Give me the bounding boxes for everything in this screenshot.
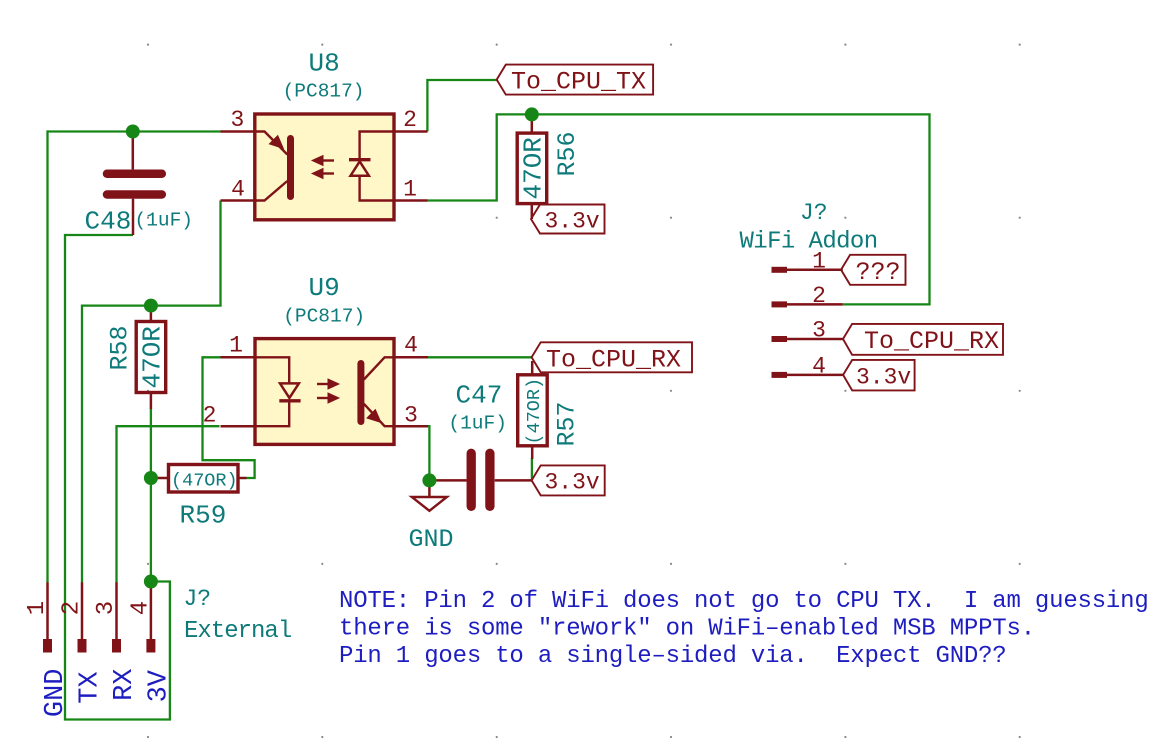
svg-text:U8: U8 — [309, 49, 340, 79]
svg-text:To_CPU_RX: To_CPU_RX — [546, 345, 681, 374]
svg-text:R56: R56 — [553, 131, 582, 176]
transistor Q2 phototransistor of U9 — [361, 357, 394, 426]
wire U8 pin1 to net and WiFi pin2 — [427, 114, 929, 304]
svg-text:3: 3 — [230, 107, 244, 133]
svg-text:4: 4 — [231, 176, 245, 202]
U9 pin 2 — [221, 425, 256, 428]
svg-text:J?: J? — [184, 586, 212, 612]
connector J? WiFi pin 2 — [772, 301, 843, 307]
wire External pin2 TX vertical — [81, 305, 83, 583]
svg-text:J?: J? — [800, 200, 828, 226]
resistor R58 — [136, 306, 166, 409]
WiFi pin numbers — [812, 248, 826, 379]
wire R58 bottom to External pin4 — [150, 408, 152, 583]
connector J? External pin 2 — [78, 582, 87, 652]
svg-text:To_CPU_TX: To_CPU_TX — [511, 68, 646, 97]
svg-text:2: 2 — [403, 107, 417, 133]
svg-text:R59: R59 — [180, 500, 227, 530]
svg-text:WiFi Addon: WiFi Addon — [740, 229, 878, 256]
U8 pin 4 — [221, 199, 255, 202]
node 3.3v label at C47 — [532, 465, 605, 495]
transistor Q1 phototransistor of U8 — [255, 132, 291, 201]
optocoupler U8 body — [255, 114, 394, 220]
svg-text:4: 4 — [812, 353, 826, 379]
svg-text:1: 1 — [229, 333, 243, 359]
svg-text:GND: GND — [408, 525, 453, 554]
junction R59 left — [144, 471, 158, 485]
svg-text:47OR: 47OR — [138, 326, 168, 388]
svg-text:4: 4 — [127, 601, 154, 615]
wire External pin1 GND vertical — [46, 130, 48, 582]
svg-text:(1uF): (1uF) — [135, 210, 194, 232]
svg-text:(47OR): (47OR) — [171, 470, 238, 491]
svg-text:???: ??? — [856, 258, 901, 287]
junction External pin4 — [144, 575, 158, 589]
wire TX horizontal — [82, 304, 222, 306]
optocoupler U9 body — [255, 339, 394, 445]
svg-text:C47: C47 — [456, 381, 503, 411]
svg-text:3.3v: 3.3v — [856, 365, 911, 391]
connector J? WiFi pin 1 — [772, 267, 843, 273]
resistor R59 — [151, 465, 247, 493]
svg-text:2: 2 — [203, 402, 217, 428]
light arrows inside U8 — [314, 157, 334, 178]
svg-text:3.3v: 3.3v — [545, 208, 600, 234]
svg-text:4: 4 — [404, 332, 418, 358]
node 3.3v label under R56 — [531, 205, 605, 234]
wire R57 to 3.3v — [531, 458, 533, 480]
ground symbol GND — [412, 480, 447, 510]
junction C48 top — [126, 125, 140, 139]
svg-text:NOTE: Pin 2 of WiFi does not g: NOTE: Pin 2 of WiFi does not go to CPU T… — [339, 588, 1149, 615]
svg-text:1: 1 — [24, 601, 51, 615]
svg-text:R58: R58 — [106, 325, 135, 370]
svg-text:3.3v: 3.3v — [545, 469, 600, 495]
connector J? External pin 1 — [43, 582, 52, 652]
svg-text:3: 3 — [93, 601, 120, 615]
svg-text:3V: 3V — [144, 669, 174, 702]
U8 pin 3 — [221, 130, 255, 133]
U8 pin 2 — [394, 130, 428, 133]
resistor R57 — [518, 361, 548, 459]
diode D2 LED of U9 — [255, 357, 301, 426]
U9 pin numbers — [203, 332, 418, 428]
wire External pin3 RX vertical — [115, 425, 117, 582]
wire GND bus top horizontal — [48, 130, 221, 132]
wire U9 pin3 to GND junction — [428, 426, 429, 480]
svg-text:2: 2 — [812, 283, 826, 309]
U8 pin numbers — [230, 107, 416, 202]
node To_CPU_RX label WiFi pin3 — [843, 324, 1003, 355]
wire U8 pin2 to To_CPU_TX — [427, 80, 496, 132]
External pin net names GND TX RX 3V rotated — [41, 669, 174, 718]
U9 pin 1 — [221, 356, 256, 359]
U9 pin 3 — [394, 425, 428, 428]
svg-text:U9: U9 — [309, 273, 340, 303]
svg-text:To_CPU_RX: To_CPU_RX — [864, 327, 999, 356]
wire U8 pin4 to TX net — [219, 201, 221, 306]
wire wrap-around GND loop — [65, 235, 170, 720]
resistor R56 — [517, 114, 547, 219]
svg-text:(1uF): (1uF) — [448, 412, 507, 434]
svg-text:47OR: 47OR — [519, 137, 549, 199]
connector J? External pin 3 — [112, 582, 121, 652]
svg-text:TX: TX — [76, 671, 106, 703]
capacitor C47 — [429, 453, 531, 506]
junction GND C47 — [422, 473, 436, 487]
light arrows inside U9 — [317, 380, 337, 402]
wire U9 pin1 to R59 — [203, 357, 255, 478]
U8 pin 1 — [394, 199, 428, 202]
connector J? WiFi pin 4 — [772, 372, 844, 378]
svg-text:1: 1 — [812, 248, 826, 274]
U9 pin 4 — [394, 356, 428, 359]
note text blue — [339, 588, 1149, 670]
svg-text:(PC817): (PC817) — [283, 81, 365, 103]
External pin numbers rotated — [24, 601, 154, 615]
connector J? External pin 4 — [146, 582, 155, 652]
wire U9 pin4 to To_CPU_RX — [428, 356, 532, 358]
svg-text:1: 1 — [403, 176, 417, 202]
svg-text:Pin 1 goes to a single–sided v: Pin 1 goes to a single–sided via. Expect… — [339, 643, 1007, 670]
svg-text:3: 3 — [404, 402, 418, 428]
svg-text:3: 3 — [812, 317, 826, 343]
svg-text:(47OR): (47OR) — [524, 378, 545, 445]
wire RX horizontal U9 pin2 — [117, 425, 220, 427]
svg-text:GND: GND — [41, 669, 71, 718]
junction R58 top — [144, 299, 158, 313]
diode D1 LED of U8 — [349, 132, 394, 201]
svg-text:2: 2 — [59, 601, 86, 615]
svg-text:(PC817): (PC817) — [283, 306, 365, 328]
node To_CPU_TX global label — [497, 65, 653, 95]
svg-text:there is some "rework" on WiFi: there is some "rework" on WiFi–enabled M… — [339, 615, 1035, 642]
svg-text:External: External — [184, 618, 292, 645]
svg-text:RX: RX — [110, 669, 140, 701]
node To_CPU_RX label at U9 — [532, 342, 692, 372]
node 3.3v label WiFi pin4 — [843, 360, 915, 391]
connector J? WiFi pin 3 — [772, 336, 844, 342]
node ??? label WiFi pin1 — [841, 255, 906, 285]
svg-text:R57: R57 — [553, 401, 582, 446]
capacitor C48 — [107, 132, 162, 236]
junction R56 top — [525, 107, 539, 121]
svg-text:C48: C48 — [85, 207, 132, 237]
